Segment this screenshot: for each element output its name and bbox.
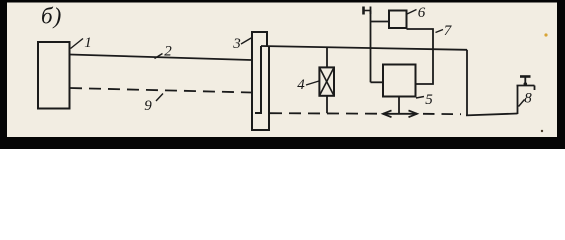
coupling 3: left wall: [251, 31, 253, 130]
throttle 4: box: [319, 67, 334, 95]
wire: left crank into box 5: [371, 81, 384, 83]
wire 7: link from box 6 right to box 5 right side: [407, 29, 434, 84]
frame: top line: [0, 0, 565, 3]
wire: bottom line from junction to tap 8: [466, 114, 518, 116]
coupling 3: inner wall: [260, 46, 262, 113]
leader for label 2: [155, 54, 163, 59]
double-headed arrow under box 5: [383, 110, 417, 117]
coupling 3: upper right wall: [266, 31, 268, 47]
manual handle H symbol: left bar: [362, 7, 365, 15]
throttle 4: X diagonal 2: [319, 67, 334, 95]
wire: solid shaft line 2 from box 1 to coupling 3: [70, 55, 251, 61]
frame: bottom bar: [0, 137, 565, 149]
frame: left bar: [0, 0, 7, 149]
svg-text:5: 5: [425, 92, 433, 108]
tap 8: handle bar: [520, 75, 531, 78]
tap 8: bracket top: [517, 85, 535, 87]
throttle 4: X diagonal 1: [319, 67, 334, 95]
wire: dashed line right of arrow: [423, 113, 461, 115]
speck near label 8 top: [544, 33, 547, 36]
throttle 4: upper stem: [326, 47, 328, 67]
wire: main top line from coupling 3 to right riser: [261, 46, 467, 50]
leader for label 1: [71, 39, 84, 49]
wire: right riser from main line down to junction: [466, 50, 468, 116]
coupling 3: bottom wall: [251, 129, 270, 131]
box 6: [389, 11, 407, 29]
svg-text:4: 4: [297, 77, 305, 93]
paper background: [0, 0, 565, 149]
svg-text:б): б): [41, 4, 62, 29]
leader for label 5: [416, 97, 424, 99]
leader for label 3: [241, 38, 252, 45]
leader for label 8: [519, 100, 525, 107]
wire: stem below box 5: [398, 97, 400, 114]
frame: right bar: [557, 0, 565, 149]
tap 8: knob dot: [524, 82, 528, 86]
leader for label 7: [436, 30, 444, 33]
coupling 3: right wall: [268, 46, 270, 130]
svg-text:3: 3: [232, 36, 241, 52]
svg-text:1: 1: [84, 35, 92, 51]
svg-text:9: 9: [144, 98, 152, 114]
wire: vertical link from handle down to box 5 left crank: [370, 11, 372, 83]
coupling 3: inner foot: [255, 112, 262, 114]
svg-text:8: 8: [524, 91, 532, 107]
leader for label 9: [156, 94, 163, 102]
manual handle H symbol: right bar: [370, 7, 372, 15]
throttle 4: lower stem: [326, 96, 328, 113]
speck bottom right: [541, 130, 543, 132]
svg-text:2: 2: [164, 44, 172, 60]
tap 8: handle stem: [524, 77, 526, 84]
coupling 3: top wall: [251, 31, 267, 33]
svg-text:6: 6: [418, 5, 426, 21]
box 5: [383, 65, 416, 97]
manual handle H symbol: crossbar: [364, 10, 371, 12]
leader for label 4: [306, 81, 319, 85]
tap 8: right tick: [534, 86, 536, 91]
tap 8: left leg: [517, 86, 519, 115]
wire: dashed line 9 from box 1 to coupling 3: [70, 88, 251, 93]
box 1 (drive unit): [38, 42, 70, 109]
wire: branch to box 6: [371, 21, 390, 23]
wire: dashed line from coupling 3 to junction: [270, 112, 383, 115]
leader for label 6: [407, 10, 417, 15]
